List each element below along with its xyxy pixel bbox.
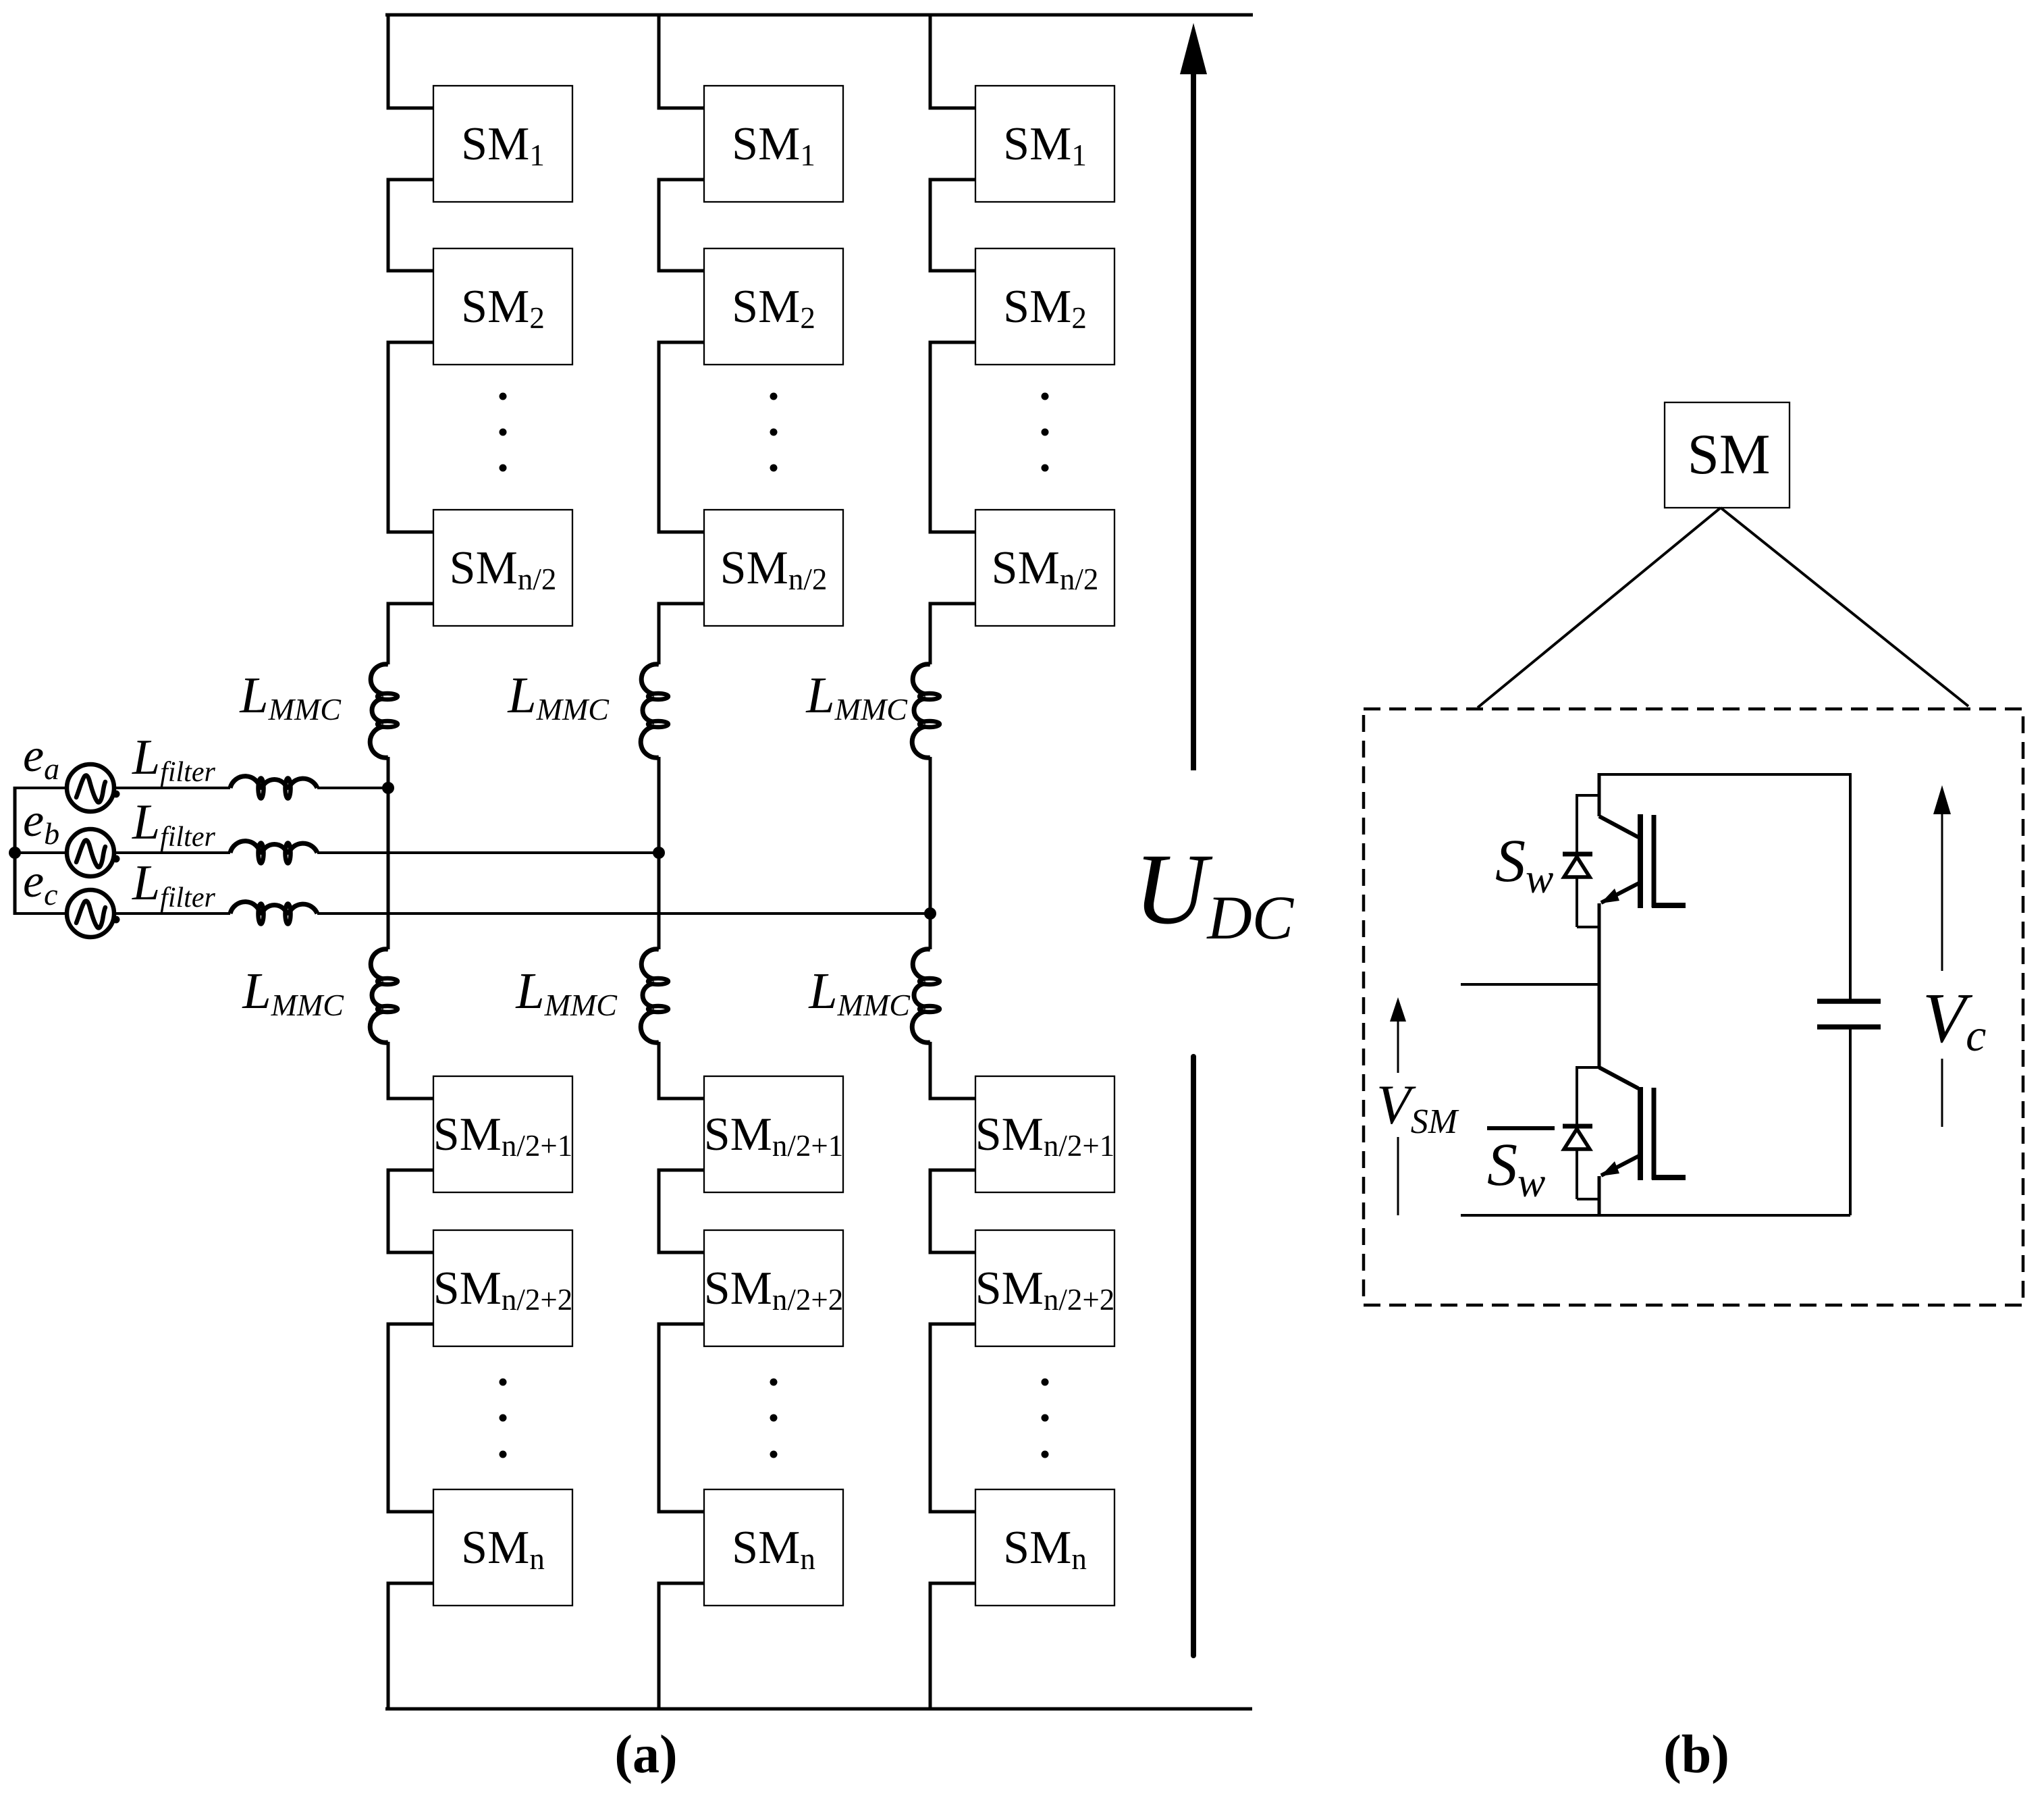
node: phase a junction on leg bbox=[382, 782, 394, 794]
wire: leg A bus, SMn/2+1 to SMn/2+2 bbox=[388, 1170, 433, 1252]
wire: leg B bus, SM1 to SM2 bbox=[659, 180, 704, 271]
wire: leg A bus, SMn/2 to upper inductor bbox=[388, 604, 433, 664]
ellipsis dots (leg C upper arm) bbox=[1042, 393, 1049, 472]
label Sw-bar (with overbar) bbox=[1487, 1128, 1555, 1206]
inductor L_MMC (leg C upper arm) bbox=[912, 664, 940, 758]
diode (antiparallel, lower) bbox=[1563, 1066, 1599, 1199]
node: phase c junction on leg bbox=[924, 907, 936, 920]
submodule SMn/2+1 (leg C lower arm) bbox=[975, 1076, 1115, 1192]
svg-text:(a): (a) bbox=[614, 1725, 677, 1784]
submodule SMn/2+2 (leg C lower arm) bbox=[975, 1230, 1115, 1346]
submodule SMn/2+2 (leg B lower arm) bbox=[704, 1230, 844, 1346]
transistor Sw-bar (lower IGBT) bbox=[1599, 984, 1686, 1217]
submodule SM2 (leg A upper arm) bbox=[433, 248, 572, 365]
top DC rail bbox=[385, 14, 1253, 17]
wire: SM internal top rail bbox=[1599, 773, 1850, 776]
wire: leg C bus, SMn/2+2 to SMn bbox=[930, 1324, 975, 1512]
submodule SMn/2+1 (leg A lower arm) bbox=[433, 1076, 573, 1192]
capacitor C (plates) bbox=[1817, 1001, 1881, 1027]
AC source e_a bbox=[67, 764, 120, 812]
submodule SM1 (leg C upper arm) bbox=[975, 86, 1114, 202]
wire: AC neutral bus (left vertical) bbox=[14, 787, 17, 915]
ellipsis dots (leg B upper arm) bbox=[770, 393, 778, 472]
wire: leg B bus, SMn/2 to upper inductor bbox=[659, 604, 704, 664]
inductor L_filter (phase a) bbox=[230, 776, 317, 799]
wire: leg B bus, SMn to bottom rail bbox=[659, 1583, 704, 1710]
wire: SM AC output (midpoint) bbox=[1461, 983, 1599, 986]
wire: leg B bus, SMn/2+2 to SMn bbox=[659, 1324, 704, 1512]
wire: leg A bus, top rail to SM1 bbox=[388, 14, 433, 108]
wire: SM internal bottom rail bbox=[1461, 1214, 1850, 1217]
submodule SM2 (leg C upper arm) bbox=[975, 248, 1114, 365]
wire: leg C bus, SM2 to SMn/2 bbox=[930, 342, 975, 532]
wire: leg B bus, upper inductor to lower inductor (AC node) bbox=[657, 757, 661, 949]
wire: leg C bus, SM1 to SM2 bbox=[930, 180, 975, 271]
submodule SMn/2 (leg B upper arm) bbox=[704, 510, 843, 626]
wire: phase b line, source to filter bbox=[14, 851, 230, 854]
inductor L_MMC (leg C lower arm) bbox=[912, 949, 940, 1043]
node: phase b junction on leg bbox=[653, 847, 665, 859]
wire: leg C bus, SMn/2+1 to SMn/2+2 bbox=[930, 1170, 975, 1252]
wire: phase c line, source to filter bbox=[14, 912, 230, 915]
callout line (right) from SM box to dashed boundary bbox=[1721, 508, 1968, 706]
node: neutral bus to phase b bbox=[9, 847, 21, 859]
wire: leg C bus, SMn/2 to upper inductor bbox=[930, 604, 975, 664]
wire: leg A bus, SM2 to SMn/2 bbox=[388, 342, 433, 532]
submodule SMn/2+2 (leg A lower arm) bbox=[433, 1230, 573, 1346]
submodule SM1 (leg A upper arm) bbox=[433, 86, 572, 202]
wire: phase b line, filter to leg bbox=[317, 851, 659, 854]
wire: leg A bus, SMn to bottom rail bbox=[388, 1583, 433, 1710]
wire: phase c line, filter to leg bbox=[317, 912, 930, 915]
arrow V_SM (lower segment) bbox=[1397, 1137, 1399, 1215]
AC source e_c bbox=[67, 890, 120, 937]
arrow U_DC (DC-link voltage, upper shaft with head) bbox=[1180, 23, 1207, 770]
wire: leg C bus, upper inductor to lower inductor (AC node) bbox=[929, 757, 932, 949]
AC source e_b bbox=[67, 829, 120, 876]
ellipsis dots (leg A upper arm) bbox=[500, 393, 507, 472]
inductor L_MMC (leg A upper arm) bbox=[370, 664, 398, 758]
wire: capacitor branch upper bbox=[1849, 773, 1852, 999]
inductor L_MMC (leg A lower arm) bbox=[370, 949, 398, 1043]
inductor L_filter (phase b) bbox=[230, 841, 317, 864]
submodule SM reference box (b) bbox=[1665, 402, 1790, 508]
wire: capacitor branch lower bbox=[1849, 1029, 1852, 1215]
inductor L_MMC (leg B upper arm) bbox=[641, 664, 668, 758]
wire: leg C bus, top rail to SM1 bbox=[930, 14, 975, 108]
submodule SM2 (leg B upper arm) bbox=[704, 248, 843, 365]
submodule SMn (leg A lower arm) bbox=[433, 1489, 572, 1606]
submodule SMn/2 (leg A upper arm) bbox=[433, 510, 572, 626]
ellipsis dots (leg A lower arm) bbox=[500, 1379, 507, 1458]
submodule SM1 (leg B upper arm) bbox=[704, 86, 843, 202]
submodule SMn (leg C lower arm) bbox=[975, 1489, 1114, 1606]
wire: leg B bus, SMn/2+1 to SMn/2+2 bbox=[659, 1170, 704, 1252]
transistor Sw (upper IGBT) bbox=[1599, 773, 1686, 986]
bottom DC rail bbox=[385, 1708, 1252, 1711]
inductor L_filter (phase c) bbox=[230, 902, 317, 924]
arrow Vc (lower segment) bbox=[1941, 1059, 1943, 1127]
arrow V_SM (upper segment with head) bbox=[1390, 997, 1406, 1073]
wire: leg A bus, SM1 to SM2 bbox=[388, 180, 433, 271]
wire: leg A bus, lower inductor to SMn/2+1 bbox=[388, 1042, 433, 1098]
ellipsis dots (leg C lower arm) bbox=[1042, 1379, 1049, 1458]
wire: leg A bus, upper inductor to lower inductor (AC node) bbox=[387, 757, 390, 949]
wire: phase a line, filter to leg bbox=[317, 787, 388, 789]
svg-text:(b): (b) bbox=[1663, 1725, 1729, 1784]
submodule SMn/2+1 (leg B lower arm) bbox=[704, 1076, 844, 1192]
wire: leg B bus, top rail to SM1 bbox=[659, 14, 704, 108]
arrow U_DC (lower shaft) bbox=[1191, 1057, 1196, 1656]
wire: leg B bus, lower inductor to SMn/2+1 bbox=[659, 1042, 704, 1098]
wire: leg C bus, lower inductor to SMn/2+1 bbox=[930, 1042, 975, 1098]
wire: phase a line, source to filter bbox=[14, 787, 230, 789]
inductor L_MMC (leg B lower arm) bbox=[641, 949, 668, 1043]
wire: leg B bus, SM2 to SMn/2 bbox=[659, 342, 704, 532]
wire: leg C bus, SMn to bottom rail bbox=[930, 1583, 975, 1710]
submodule SMn (leg B lower arm) bbox=[704, 1489, 843, 1606]
arrow Vc (with head) bbox=[1933, 785, 1951, 971]
submodule SMn/2 (leg C upper arm) bbox=[975, 510, 1114, 626]
diode (antiparallel, upper) bbox=[1563, 794, 1599, 927]
wire: leg A bus, SMn/2+2 to SMn bbox=[388, 1324, 433, 1512]
ellipsis dots (leg B lower arm) bbox=[770, 1379, 778, 1458]
callout line (left) from SM box to dashed boundary bbox=[1478, 508, 1721, 708]
dashed submodule boundary box bbox=[1364, 709, 2023, 1305]
svg-text:SM: SM bbox=[1688, 423, 1771, 486]
